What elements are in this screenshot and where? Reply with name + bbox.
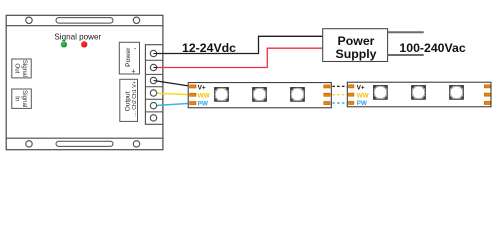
label box: Power: [119, 42, 139, 74]
terminal screw 3 (Out V+): [150, 77, 156, 83]
wire: output Ch1 WW (yellow) to strip 1: [154, 93, 192, 95]
LED strip 1 body: [188, 83, 331, 108]
bottom slot: [56, 141, 113, 146]
svg-text:V+: V+: [357, 85, 365, 92]
power supply PS1 box: [323, 29, 388, 62]
strip1 pad WW (left): [190, 93, 196, 96]
mounting hole top-left: [26, 17, 32, 23]
wire: AC line (top): [388, 31, 424, 33]
mounting hole bottom-right: [133, 141, 139, 147]
wire: DC V+ (red) controller to power supply: [154, 48, 323, 67]
LED D2 power (red): [81, 41, 87, 47]
svg-text:Output: Output: [125, 92, 132, 112]
svg-text:PW: PW: [198, 101, 209, 108]
strip2 pad WW (right): [484, 93, 490, 96]
svg-text:Power: Power: [338, 34, 375, 48]
jumper wire PW (blue dashed) strip1 to strip2: [332, 102, 347, 104]
mounting hole top-right: [133, 17, 139, 23]
svg-text:WW: WW: [357, 92, 370, 99]
terminal divider 3: [145, 86, 162, 88]
terminal screw 4 (Out Ch1): [150, 90, 156, 96]
strip1 LED chip 2: [253, 88, 267, 102]
strip2 LED chip 1: [374, 86, 388, 100]
svg-text:Signal: Signal: [21, 90, 28, 107]
svg-text:12-24Vdc: 12-24Vdc: [182, 41, 236, 55]
svg-text:100-240Vac: 100-240Vac: [399, 41, 465, 55]
jumper wire WW (yellow dashed) strip1 to strip2: [332, 94, 347, 96]
controller U1 body: [6, 15, 163, 149]
strip1 LED chip 1: [215, 88, 229, 102]
svg-text:In: In: [13, 96, 20, 102]
svg-text:Out: Out: [13, 63, 20, 73]
terminal screw 2 (Power +): [150, 64, 156, 70]
mounting hole bottom-left: [26, 141, 32, 147]
terminal divider 1: [145, 59, 162, 61]
connector J2 Signal In box: [12, 89, 32, 108]
svg-text:....: ....: [132, 111, 138, 117]
svg-text:Signal power: Signal power: [54, 33, 101, 42]
wire: DC V- (black) controller to power supply: [154, 36, 323, 53]
strip1 pad V+ (left): [190, 85, 196, 88]
LED D1 signal (green): [61, 41, 67, 47]
svg-text:WW: WW: [198, 93, 211, 100]
controller bottom rail line: [6, 137, 163, 139]
svg-text:+: +: [131, 69, 135, 76]
strip1 pad V+ (right): [324, 85, 330, 88]
svg-text:V+: V+: [198, 85, 206, 92]
strip1 LED chip 3: [291, 88, 305, 102]
controller top rail line: [6, 25, 163, 27]
strip1 pad PW (right): [324, 102, 330, 105]
top slot: [56, 18, 113, 24]
svg-text:PW: PW: [357, 100, 368, 107]
terminal block TB1: [145, 45, 162, 125]
terminal divider 4: [145, 98, 162, 100]
svg-text:Ch2 Ch1 V+: Ch2 Ch1 V+: [132, 81, 138, 109]
terminal divider 5: [145, 111, 162, 113]
label: Signal Out (rotated): [13, 60, 28, 77]
label: Signal In (rotated): [13, 90, 28, 107]
terminal screw 5 (Out Ch2): [150, 102, 156, 108]
strip1 pad PW (left): [190, 102, 196, 105]
svg-text:Signal: Signal: [21, 60, 28, 77]
wire: output Ch2 PW (blue) to strip 1: [154, 103, 192, 105]
strip2 pad WW (left): [349, 93, 354, 96]
strip2 LED chip 3: [450, 86, 464, 100]
terminal divider 2: [145, 73, 162, 75]
strip2 LED chip 2: [412, 86, 426, 100]
strip2 pad PW (right): [484, 101, 490, 104]
label: Power Supply: [336, 34, 377, 61]
terminal screw 6 (unused): [150, 115, 156, 121]
wire: output V+ (black) to strip 1: [154, 81, 192, 87]
svg-text:Power: Power: [125, 47, 132, 67]
terminal screw 1 (Power -): [150, 50, 156, 56]
svg-text:Supply: Supply: [336, 47, 377, 61]
strip2 pad V+ (left): [349, 85, 354, 88]
strip2 pad PW (left): [349, 101, 354, 104]
jumper wire V+ (black dashed) strip1 to strip2: [332, 85, 347, 87]
strip2 pad V+ (right): [484, 85, 490, 88]
label box: Output: [120, 79, 138, 121]
strip1 pad WW (right): [324, 93, 330, 96]
LED strip 2 body: [347, 82, 491, 107]
connector J1 Signal Out box: [12, 59, 31, 78]
wire: AC neutral (bottom): [388, 54, 424, 56]
